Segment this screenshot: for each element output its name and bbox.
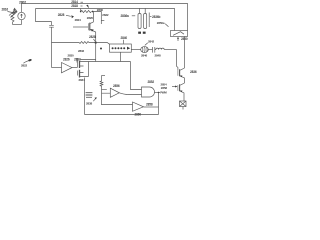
crystal bar a: [138, 14, 141, 29]
opamp1 inputs: [102, 89, 111, 93]
svg-text:2848: 2848: [155, 53, 162, 57]
opamp1 vertical: [101, 76, 103, 82]
resistor left vertical: [11, 14, 14, 25]
svg-text:2836b: 2836b: [152, 15, 160, 19]
svg-text:2852: 2852: [148, 80, 155, 84]
svg-text:2856: 2856: [113, 84, 120, 88]
gate output: [155, 92, 160, 94]
arrows on resistor: [9, 10, 16, 16]
wire bar a stem: [139, 8, 141, 13]
opamp2 out wire: [144, 106, 159, 108]
svg-text:2828: 2828: [58, 13, 65, 17]
wire top rail1: [22, 4, 188, 31]
inductor: [155, 48, 164, 49]
svg-text:2826: 2826: [63, 57, 70, 61]
transistor pair bar: [79, 61, 81, 78]
wire to opampL: [52, 67, 62, 69]
corner stub: [101, 19, 104, 21]
svg-text:PWM: PWM: [160, 90, 167, 94]
svg-text:2846: 2846: [141, 53, 148, 57]
pins of 2840: [112, 47, 131, 50]
svg-text:2858: 2858: [146, 103, 153, 107]
transistor Q upper: [179, 69, 181, 76]
wire right vertical: [184, 37, 186, 69]
svg-text:2820: 2820: [87, 16, 94, 20]
svg-text:2818: 2818: [71, 4, 78, 8]
svg-text:2828: 2828: [89, 35, 96, 39]
resistor 2820 horizontal: [81, 10, 92, 12]
transistor Q top bars: [87, 23, 89, 30]
svg-text:2834: 2834: [79, 78, 86, 82]
wire bar b stem: [144, 8, 146, 13]
svg-text:2836: 2836: [190, 70, 197, 74]
opamp 2: [133, 102, 144, 111]
wire bottom loop: [13, 24, 22, 26]
svg-text:2802: 2802: [19, 1, 26, 5]
opamp1 stub: [102, 75, 106, 77]
coil circle 2844: [141, 47, 149, 53]
bar a foot: [138, 32, 141, 34]
wire pair down: [84, 78, 86, 115]
crystal bar b: [144, 14, 147, 29]
wire pair to right: [89, 61, 131, 63]
box 2850: [171, 31, 188, 37]
svg-text:2858: 2858: [161, 86, 168, 90]
svg-text:2850a: 2850a: [157, 21, 165, 25]
capacitor: [153, 47, 155, 53]
wire circle stem up: [21, 4, 23, 13]
opamp2 input wire: [102, 104, 133, 106]
wire circle stem down: [21, 20, 23, 25]
arrow into 2850: [177, 38, 179, 41]
feedback vertical right: [158, 93, 160, 115]
pair connections: [80, 62, 89, 77]
source down: [90, 30, 96, 43]
svg-text:2840: 2840: [121, 36, 128, 40]
svg-text:2822: 2822: [21, 64, 28, 68]
resistor on opamp1 vertical: [100, 81, 103, 105]
wire to box 2840: [96, 43, 110, 45]
svg-text:2830: 2830: [68, 54, 75, 58]
wire opamp1 to gate: [119, 93, 141, 95]
arrow 2822: [24, 61, 29, 64]
AND gate: [142, 87, 155, 97]
svg-text:2860: 2860: [135, 112, 142, 116]
drain up: [90, 12, 93, 24]
junction dot mid: [95, 42, 97, 44]
wire rail2 left drop: [36, 9, 52, 22]
wire box2840 down: [120, 52, 122, 61]
junction dot right: [92, 11, 94, 13]
transistor Q upper drain lead: [180, 68, 184, 70]
bar b foot: [143, 32, 146, 34]
wire rail2: [36, 9, 175, 31]
wire chain to right: [164, 49, 176, 51]
label 2838 left of box: [100, 48, 102, 50]
transistor Q top: gate wire: [73, 26, 88, 28]
crystal side line: [148, 13, 150, 28]
svg-text:2836a: 2836a: [121, 14, 129, 18]
junction dot left: [80, 11, 82, 13]
wire opampL out: [72, 67, 78, 69]
gate arrow to Q lower: [172, 86, 176, 88]
label 2840 pointer: [123, 40, 125, 44]
box 2840: [110, 44, 132, 52]
arrow from 2816: [8, 12, 16, 14]
bottom rail: [85, 114, 159, 116]
wire 2840 right down: [131, 62, 142, 90]
resistor hatch rows: [86, 93, 93, 96]
capacitor C on x52: [49, 22, 54, 68]
sense box: [180, 101, 187, 107]
svg-text:2832: 2832: [102, 13, 109, 17]
svg-text:2832: 2832: [78, 49, 85, 53]
label 2862: [93, 98, 96, 101]
opamp 1: [110, 88, 119, 97]
wire to corner: [93, 12, 102, 25]
svg-text:2824: 2824: [75, 18, 82, 22]
wire mid horizontal with resistor: [52, 42, 96, 44]
junction gate out: [158, 92, 159, 93]
current source circle: [18, 12, 25, 19]
svg-text:2816: 2816: [2, 8, 9, 12]
svg-text:2842: 2842: [148, 39, 155, 43]
arrowhead 2818 on rail2: [86, 5, 89, 8]
wire coil to cap: [148, 49, 152, 51]
transistor Q lower: [179, 84, 181, 91]
wire box to chain: [131, 49, 140, 51]
opamp L: [62, 63, 73, 73]
svg-text:2838: 2838: [86, 101, 93, 105]
stem rail2 to resistor: [80, 9, 82, 12]
source arrowhead: [90, 29, 93, 32]
transistor Q lower drain lead: [180, 83, 184, 85]
